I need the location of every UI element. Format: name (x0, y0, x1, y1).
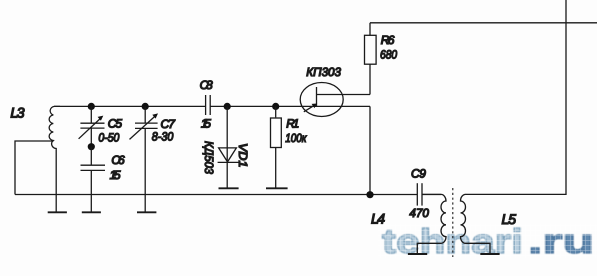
svg-text:100к: 100к (285, 131, 307, 145)
capacitor C8 (series, 15) (206, 95, 211, 115)
node: junction dot top of C5 (88, 103, 95, 110)
node: junction dot R1 branch (272, 103, 279, 110)
svg-text:15: 15 (110, 168, 121, 182)
wire: source down to bottom bus (369, 106, 371, 194)
svg-text:КП303: КП303 (306, 65, 341, 79)
node: junction dot between C5 and C6 (88, 143, 95, 150)
node: junction dot source/bus (366, 191, 373, 198)
svg-text:C9: C9 (411, 166, 426, 180)
node: junction dot VD1 branch (224, 103, 231, 110)
ground (C7 branch) (137, 195, 156, 213)
svg-text:L4: L4 (371, 211, 385, 227)
capacitor C6 15 (81, 147, 106, 195)
svg-text:L3: L3 (10, 105, 24, 121)
wire: main top bus y=106.4 from L3 to C8 left plate (54, 105, 206, 107)
svg-text:R6: R6 (381, 33, 395, 47)
ground (C5/C6 branch) (82, 195, 101, 213)
svg-text:680: 680 (380, 48, 397, 62)
resistor R1 100k (266, 106, 288, 188)
transistor U1 КП303 (JFET) (300, 83, 370, 117)
wire: bottom ground bus (15, 194, 417, 196)
svg-text:15: 15 (201, 117, 211, 131)
ground (L3) (48, 195, 67, 213)
svg-text:КД503: КД503 (202, 141, 216, 174)
wire: top bus from C8 right plate to transistor source corner (210, 105, 370, 107)
capacitor C7 (variable 8-30) (130, 106, 159, 194)
svg-text:C6: C6 (111, 153, 125, 167)
resistor R6 680 (365, 23, 377, 64)
inductor L4 (408, 194, 446, 254)
inductor L5 (460, 194, 499, 254)
svg-text:L5: L5 (502, 211, 517, 227)
svg-text:C8: C8 (200, 78, 213, 92)
wire: drain up to R6 (369, 64, 371, 94)
svg-text:470: 470 (409, 206, 429, 220)
wire: top supply rail (370, 22, 597, 24)
svg-text:0-50: 0-50 (98, 130, 119, 144)
diode VD1 КД503 (218, 106, 239, 188)
capacitor C9 470 (series) (417, 183, 441, 205)
wire: right vertical from top edge down to L5 (466, 0, 566, 194)
transformer core (dashed) (452, 188, 454, 257)
watermark tehnari.ru (382, 223, 594, 261)
inductor L3 (49, 106, 60, 194)
svg-text:VD1: VD1 (236, 143, 250, 168)
node: junction dot top of C7 (142, 103, 149, 110)
svg-text:C5: C5 (108, 117, 123, 131)
mosaic overlay on watermark (378, 224, 597, 258)
svg-text:8-30: 8-30 (152, 129, 174, 143)
svg-text:R1: R1 (286, 117, 299, 131)
capacitor C5 (variable 0-50) (79, 106, 105, 146)
wire: L3 tap to left (15, 141, 54, 195)
